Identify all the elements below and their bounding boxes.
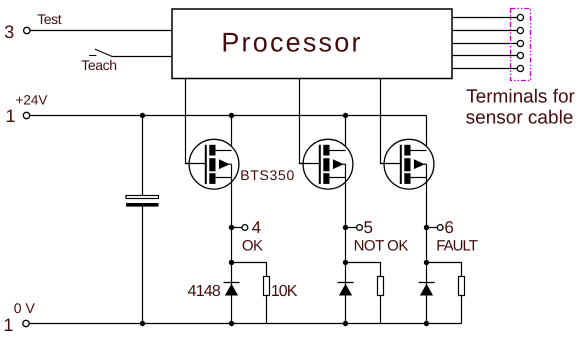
wire capacitor bottom: [142, 207, 144, 324]
wire stub terminal 6: [427, 227, 438, 229]
svg-text:0 V: 0 V: [14, 300, 36, 316]
transistor Q3 (BTS350 high-side MOSFET): [381, 139, 434, 189]
wire stub terminal 5: [346, 227, 357, 229]
wire stub terminal 4: [232, 227, 243, 229]
wire Teach switch to Processor: [112, 56, 172, 58]
sensor connector outline (dash-dot): [511, 9, 531, 81]
node: junction Q1 source / resistor R1: [229, 260, 234, 265]
wire Q2 drain: [345, 116, 347, 151]
terminal 3 (Test input): [24, 27, 30, 33]
wire 0V rail: [29, 323, 461, 325]
svg-text:OK: OK: [242, 238, 263, 255]
diode D2 (4148): [338, 283, 354, 296]
svg-text:4: 4: [252, 218, 261, 237]
wire resistor R2 to 0V: [380, 296, 382, 324]
terminal 1 (+24V): [23, 112, 29, 118]
wire Q3 drain: [426, 116, 428, 151]
wire sensor line 1: [453, 17, 518, 19]
wire resistor R1 branch: [232, 263, 267, 278]
wire gate drop Q3 from Processor: [381, 79, 402, 164]
resistor R2 10K: [378, 277, 384, 296]
node: junction Q3 source / resistor R3: [424, 260, 429, 265]
svg-text:3: 3: [4, 22, 14, 42]
wire Q1 drain: [231, 116, 233, 151]
node: junction 0V / capacitor: [140, 321, 145, 326]
svg-text:BTS350: BTS350: [240, 167, 295, 183]
svg-text:5: 5: [364, 218, 373, 237]
sensor terminal pin 3: [517, 40, 523, 46]
node: junction 0V / channel 1: [229, 321, 234, 326]
sensor terminal pin 5: [517, 65, 523, 71]
node: junction 0V / channel 2: [343, 321, 348, 326]
wire resistor R3 branch: [427, 263, 462, 278]
terminal 1 (0V): [23, 320, 29, 326]
switch Teach (open contact): [89, 49, 112, 56]
transistor Q2 (BTS350 high-side MOSFET): [300, 139, 353, 189]
sensor terminal pin 1: [517, 14, 523, 20]
node: junction +24V / Q2 drain: [343, 113, 348, 118]
wire Test: terminal 3 to Processor: [30, 30, 172, 32]
svg-text:4148: 4148: [188, 283, 221, 300]
processor U1 box: [172, 9, 452, 79]
wire resistor R2 branch: [346, 263, 381, 278]
wire capacitor top: [142, 116, 144, 196]
wire gate drop Q1 from Processor: [186, 79, 207, 164]
svg-text:NOT OK: NOT OK: [354, 238, 409, 255]
svg-text:FAULT: FAULT: [436, 238, 477, 255]
transistor Q1 (BTS350 high-side MOSFET): [186, 139, 239, 189]
resistor R1 10K: [264, 277, 270, 296]
svg-text:Test: Test: [37, 11, 62, 27]
node: junction +24V / Q1 drain: [229, 113, 234, 118]
svg-text:+24V: +24V: [16, 93, 48, 108]
wire sensor line 5: [453, 68, 518, 70]
terminal 4: [242, 225, 248, 231]
wire sensor line 2: [453, 30, 518, 32]
svg-text:1: 1: [3, 315, 13, 335]
svg-text:6: 6: [444, 218, 453, 237]
caption: Terminals for sensor cable: [466, 87, 576, 129]
wire sensor line 3: [453, 43, 518, 45]
node: junction Q2 source / terminal 5: [343, 225, 348, 230]
terminal 6: [437, 225, 443, 231]
wire Q2 source down to 0V: [345, 164, 347, 323]
node: junction 0V / channel 3: [424, 321, 429, 326]
svg-text:1: 1: [6, 106, 16, 126]
wire Q3 source down to 0V: [426, 164, 428, 323]
terminal 5: [357, 225, 363, 231]
resistor R3 10K: [459, 277, 465, 296]
node: junction Q2 source / resistor R2: [343, 260, 348, 265]
wire Q1 source down to 0V: [231, 164, 233, 323]
sensor terminal pin 2: [517, 27, 523, 33]
svg-text:Teach: Teach: [81, 57, 116, 73]
svg-text:Terminals for: Terminals for: [466, 87, 575, 108]
sensor terminal pin 4: [517, 52, 523, 58]
wire sensor line 4: [453, 55, 518, 57]
svg-text:10K: 10K: [271, 283, 298, 300]
wire resistor R1 to 0V: [266, 296, 268, 324]
node: junction +24V / capacitor: [140, 113, 145, 118]
node: junction Q3 source / terminal 6: [424, 225, 429, 230]
svg-text:sensor cable: sensor cable: [466, 108, 574, 129]
wire gate drop Q2 from Processor: [300, 79, 321, 164]
svg-text:Processor: Processor: [221, 28, 362, 58]
capacitor C1: [126, 196, 159, 207]
diode D1 (4148): [224, 283, 240, 296]
wire resistor R3 to 0V: [461, 296, 463, 324]
diode D3 (4148): [419, 283, 435, 296]
wire +24V rail: [30, 115, 427, 117]
node: junction Q1 source / terminal 4: [229, 225, 234, 230]
